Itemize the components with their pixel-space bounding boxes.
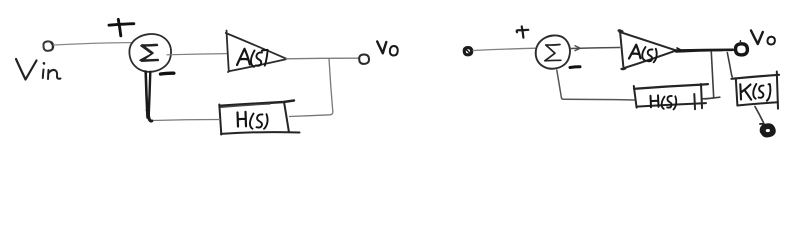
terminal Vin: [43, 41, 53, 50]
plus sign (left): [109, 19, 134, 35]
wire K(s) to ground terminal: [755, 107, 764, 125]
label A(s) right: [629, 45, 657, 63]
wire H(s) to feedback riser: [153, 120, 220, 121]
block H1 H(s) (left): [219, 101, 299, 135]
label H(S) right: [651, 95, 677, 109]
summing junction U1 sigma circle: [129, 34, 171, 72]
wire summing junction to A(s) with arrowhead: [571, 46, 620, 51]
block H2 H(s) (right): [634, 84, 708, 109]
terminal V0 (left): [359, 54, 369, 63]
feedback riser double line: [146, 72, 152, 122]
label V0 (right): [751, 31, 775, 45]
minus sign (left): [161, 71, 174, 75]
label Vin: [16, 59, 61, 80]
summing junction U2 sigma circle: [536, 35, 570, 68]
minus sign (right): [570, 65, 580, 69]
op-amp A1 triangle (left): [226, 31, 286, 73]
terminal ground (right bottom): [760, 124, 774, 136]
label A(s) left: [237, 49, 268, 67]
wire A(s) to output terminal: [286, 57, 359, 60]
terminal input (right): [464, 48, 471, 55]
label V0 (left): [377, 42, 398, 56]
plus sign (right): [517, 26, 529, 37]
wire output junction down to feedback: [290, 59, 333, 117]
label H(s) left: [238, 112, 268, 129]
wire input to summing junction: [54, 43, 134, 45]
wire input to summing junction (right): [473, 48, 537, 50]
op-amp A2 triangle (right): [619, 30, 676, 69]
sigma glyph: [140, 44, 158, 61]
block K1 K(s): [732, 72, 780, 109]
label K(s): [740, 84, 770, 101]
wire summing junction to A(s): [167, 54, 227, 55]
wire drop to H(s) (right): [702, 52, 720, 99]
wire drop to K(s): [727, 53, 732, 77]
wire H(s) back to summing junction (right): [557, 70, 635, 100]
sigma glyph (right): [545, 45, 561, 61]
terminal V0 (right): [735, 44, 747, 55]
wire A(s) to output terminal (heavy): [676, 48, 733, 52]
